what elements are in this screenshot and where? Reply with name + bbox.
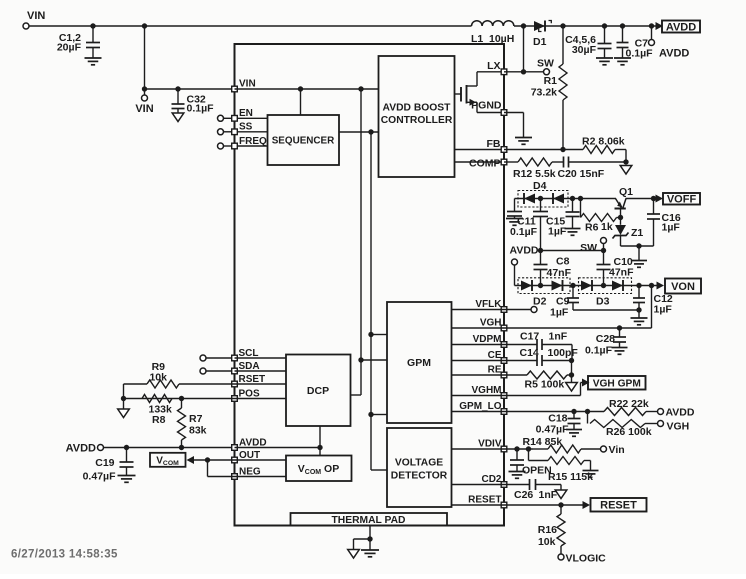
svg-text:R22 22k: R22 22k (609, 398, 649, 410)
svg-text:PGND: PGND (471, 100, 502, 112)
svg-text:C17: C17 (520, 331, 539, 343)
svg-text:AVDD: AVDD (666, 407, 695, 419)
svg-text:FREQ: FREQ (239, 136, 267, 147)
svg-text:CE: CE (488, 350, 502, 361)
svg-text:COMP: COMP (469, 158, 501, 170)
svg-text:83k: 83k (189, 425, 207, 437)
svg-text:L1: L1 (471, 33, 483, 45)
svg-text:D4: D4 (533, 180, 547, 192)
svg-text:47nF: 47nF (547, 267, 572, 279)
svg-text:RESET: RESET (468, 495, 501, 506)
svg-text:73.2k: 73.2k (531, 87, 557, 99)
svg-text:C28: C28 (596, 333, 615, 345)
svg-text:VON: VON (671, 281, 695, 293)
svg-text:R15 115k: R15 115k (548, 471, 593, 483)
svg-text:R8: R8 (152, 414, 166, 426)
svg-text:C20 15nF: C20 15nF (558, 168, 605, 180)
svg-text:1µF: 1µF (548, 226, 567, 238)
svg-text:R2 8.06k: R2 8.06k (582, 136, 625, 148)
svg-text:CD2: CD2 (481, 474, 501, 485)
svg-text:20µF: 20µF (57, 42, 82, 54)
svg-text:SW: SW (580, 242, 597, 254)
svg-text:10k: 10k (538, 536, 556, 548)
svg-text:D3: D3 (596, 296, 610, 308)
svg-text:VDPM: VDPM (473, 334, 502, 345)
svg-text:VIN: VIN (135, 103, 153, 115)
svg-text:R5 100k: R5 100k (525, 379, 565, 391)
svg-text:AVDD BOOST: AVDD BOOST (383, 103, 452, 114)
svg-text:VOLTAGE: VOLTAGE (395, 458, 443, 469)
svg-text:DCP: DCP (307, 385, 329, 397)
svg-text:DETECTOR: DETECTOR (391, 471, 448, 482)
svg-text:THERMAL PAD: THERMAL PAD (332, 515, 406, 526)
svg-text:10k: 10k (149, 372, 167, 384)
svg-text:Vin: Vin (609, 444, 625, 456)
svg-text:0.47µF: 0.47µF (536, 424, 569, 436)
svg-text:R14 85k: R14 85k (523, 436, 563, 448)
svg-text:SS: SS (239, 122, 253, 133)
svg-text:1nF: 1nF (549, 331, 568, 343)
svg-text:AVDD: AVDD (510, 245, 539, 257)
svg-text:SEQUENCER: SEQUENCER (272, 135, 335, 146)
svg-text:EN: EN (239, 108, 253, 119)
svg-text:R6: R6 (585, 222, 599, 234)
svg-text:VDIV: VDIV (478, 439, 502, 450)
svg-text:Z1: Z1 (631, 227, 643, 239)
svg-text:SCL: SCL (239, 348, 259, 359)
svg-text:0.1µF: 0.1µF (585, 345, 613, 357)
svg-text:GPM: GPM (407, 357, 431, 369)
svg-text:OUT: OUT (239, 450, 260, 461)
svg-text:AVDD: AVDD (66, 443, 96, 455)
svg-text:VIN: VIN (27, 10, 45, 22)
svg-text:VLOGIC: VLOGIC (566, 553, 607, 565)
svg-text:CONTROLLER: CONTROLLER (381, 115, 453, 126)
svg-text:0.47µF: 0.47µF (83, 471, 116, 483)
svg-text:GPM_LO: GPM_LO (459, 401, 501, 412)
svg-text:NEG: NEG (239, 466, 261, 477)
svg-text:10µH: 10µH (489, 33, 514, 45)
svg-text:30µF: 30µF (572, 44, 597, 56)
svg-text:SDA: SDA (239, 361, 260, 372)
svg-text:C7: C7 (635, 38, 649, 50)
svg-text:R1: R1 (544, 75, 558, 87)
svg-text:6/27/2013 14:58:35: 6/27/2013 14:58:35 (11, 549, 118, 561)
svg-text:1µF: 1µF (662, 222, 681, 234)
svg-text:VGH GPM: VGH GPM (593, 378, 641, 389)
svg-text:1nF: 1nF (539, 489, 558, 501)
svg-text:47nF: 47nF (609, 267, 634, 279)
svg-text:POS: POS (239, 389, 260, 400)
svg-text:100pF: 100pF (548, 347, 579, 359)
svg-text:RE: RE (488, 365, 502, 376)
svg-text:C19: C19 (95, 457, 114, 469)
svg-text:VGH: VGH (480, 318, 502, 329)
svg-text:VFLK: VFLK (475, 299, 502, 310)
svg-text:SW: SW (537, 58, 554, 70)
svg-text:C8: C8 (556, 256, 570, 268)
svg-text:R26 100k: R26 100k (606, 426, 652, 438)
svg-text:C26: C26 (514, 489, 533, 501)
svg-text:R7: R7 (189, 413, 203, 425)
svg-text:RESET: RESET (600, 500, 637, 512)
svg-text:LX: LX (487, 60, 500, 72)
svg-text:AVDD: AVDD (666, 21, 696, 33)
svg-text:VGHM: VGHM (472, 385, 502, 396)
svg-text:1k: 1k (601, 221, 613, 233)
svg-text:R16: R16 (538, 524, 557, 536)
svg-text:0.1µF: 0.1µF (187, 103, 215, 115)
svg-text:VOFF: VOFF (667, 194, 697, 206)
svg-text:C14: C14 (520, 347, 539, 359)
svg-text:VIN: VIN (239, 79, 256, 90)
svg-text:1µF: 1µF (550, 307, 569, 319)
svg-text:0.1µF: 0.1µF (510, 226, 538, 238)
svg-text:R12 5.5k: R12 5.5k (513, 168, 556, 180)
svg-text:Q1: Q1 (619, 186, 633, 198)
svg-text:VGH: VGH (667, 421, 690, 433)
svg-text:D2: D2 (533, 296, 547, 308)
svg-text:RSET: RSET (239, 374, 266, 385)
svg-text:1µF: 1µF (654, 304, 673, 316)
svg-text:D1: D1 (533, 36, 547, 48)
svg-text:FB: FB (487, 138, 501, 150)
svg-text:AVDD: AVDD (659, 48, 689, 60)
